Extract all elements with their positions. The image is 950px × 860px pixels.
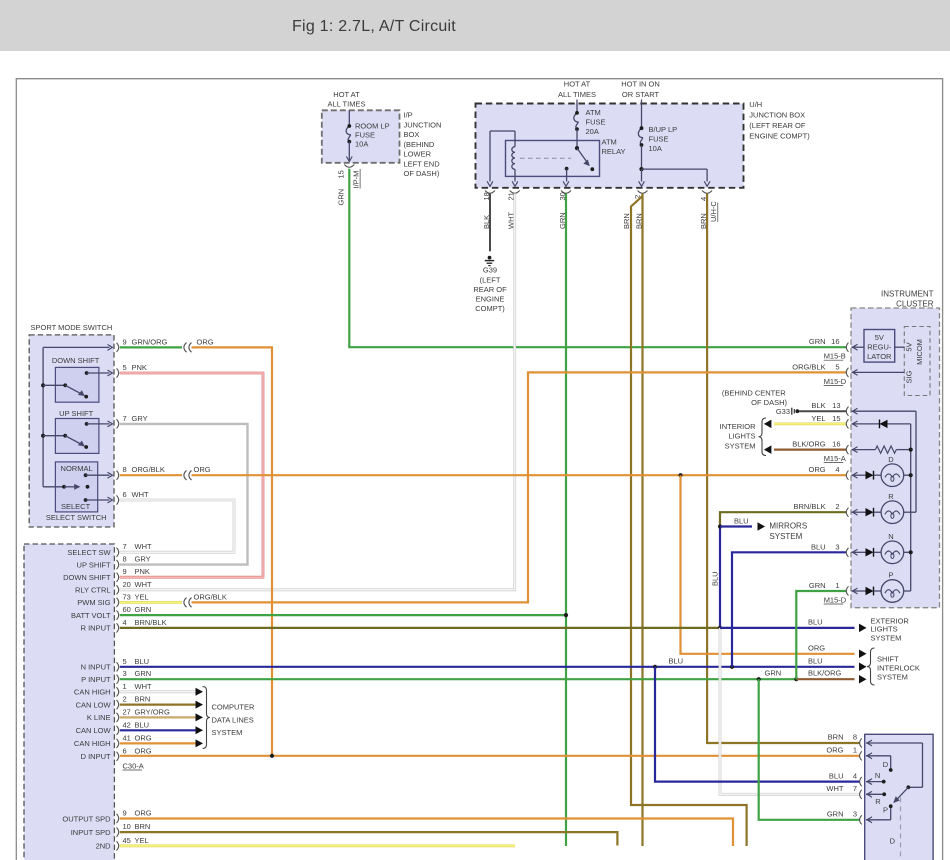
svg-text:P INPUT: P INPUT — [81, 675, 111, 684]
svg-text:SYSTEM: SYSTEM — [877, 672, 908, 681]
svg-text:5: 5 — [123, 657, 127, 666]
svg-text:WHT: WHT — [135, 580, 152, 589]
svg-text:FUSE: FUSE — [355, 130, 375, 139]
U/H pin 2 connector — [638, 191, 648, 194]
range pin 7 WHT — [860, 790, 862, 799]
sport pin 6 — [117, 495, 119, 504]
svg-text:SHIFT: SHIFT — [877, 655, 899, 664]
svg-text:BLK/ORG: BLK/ORG — [808, 669, 842, 678]
fuse B/UP LP FUSE 10A — [641, 100, 643, 129]
I/P junction box — [322, 110, 400, 163]
svg-text:BRN: BRN — [135, 822, 151, 831]
wire ORG/BLK pin8 + splice + ORG to cluster pin 4 — [120, 474, 182, 476]
svg-text:N: N — [888, 532, 893, 541]
svg-text:SPORT MODE SWITCH: SPORT MODE SWITCH — [31, 323, 113, 332]
svg-text:SYSTEM: SYSTEM — [725, 442, 756, 451]
svg-text:3: 3 — [123, 669, 127, 678]
svg-text:OR START: OR START — [622, 90, 660, 99]
svg-text:6: 6 — [123, 490, 127, 499]
svg-text:M15-D: M15-D — [824, 377, 847, 386]
relay output to pin 30 — [565, 167, 569, 171]
svg-text:GRN: GRN — [337, 189, 346, 206]
range pin 3 GRN — [860, 815, 862, 824]
svg-text:5V: 5V — [905, 342, 914, 351]
interior lights YEL 15 — [764, 420, 772, 429]
svg-text:R: R — [875, 797, 881, 806]
svg-text:ENGINE COMPT): ENGINE COMPT) — [749, 132, 810, 141]
U/H pin 21 connector — [510, 191, 520, 194]
svg-text:2: 2 — [835, 502, 839, 511]
wire WHT pin6 to TCM SELECT SW — [120, 500, 234, 552]
U/H pin 4 connector U/H-C — [702, 191, 712, 194]
range pin 1 ORG — [860, 751, 862, 760]
svg-text:GRN/ORG: GRN/ORG — [132, 337, 168, 346]
svg-text:PNK: PNK — [132, 363, 147, 372]
svg-text:D INPUT: D INPUT — [81, 752, 111, 761]
svg-text:D: D — [888, 455, 894, 464]
wire BRN pin2 main — [641, 194, 643, 847]
svg-text:LEFT END: LEFT END — [404, 159, 441, 168]
svg-text:DOWN SHIFT: DOWN SHIFT — [52, 356, 100, 365]
svg-text:INTERLOCK: INTERLOCK — [877, 663, 920, 672]
svg-text:DATA LINES: DATA LINES — [212, 715, 254, 724]
svg-text:M15-D: M15-D — [824, 596, 847, 605]
TCM connector box — [24, 544, 114, 860]
title bar — [0, 0, 950, 51]
relay switch — [575, 146, 579, 150]
svg-text:ORG/BLK: ORG/BLK — [132, 465, 165, 474]
wire BLU to cluster pin 3 — [732, 552, 847, 667]
svg-text:CAN LOW: CAN LOW — [76, 726, 112, 735]
wire BRN U/H-C pin4 to range switch pin 8 — [707, 194, 860, 744]
cluster lamp R pin 2 — [846, 508, 848, 517]
svg-text:BLU: BLU — [711, 571, 720, 586]
svg-text:BLU: BLU — [808, 656, 823, 665]
svg-text:FUSE: FUSE — [586, 118, 606, 127]
svg-text:SYSTEM: SYSTEM — [871, 634, 902, 643]
svg-text:ENGINE: ENGINE — [476, 295, 505, 304]
svg-text:BLU: BLU — [808, 617, 823, 626]
svg-text:9: 9 — [123, 337, 127, 346]
svg-text:(LEFT: (LEFT — [480, 276, 501, 285]
svg-text:YEL: YEL — [135, 592, 149, 601]
svg-text:ORG: ORG — [135, 733, 152, 742]
U/H pin 30 connector — [561, 191, 571, 194]
sport pin 5 — [117, 368, 119, 377]
svg-text:P: P — [883, 805, 888, 814]
svg-text:GRN: GRN — [135, 605, 152, 614]
svg-text:CAN LOW: CAN LOW — [76, 700, 112, 709]
svg-text:D: D — [883, 760, 889, 769]
svg-text:SELECT SW: SELECT SW — [67, 548, 111, 557]
svg-text:Fig 1: 2.7L, A/T Circuit: Fig 1: 2.7L, A/T Circuit — [292, 18, 456, 35]
computer data lines wires — [120, 690, 196, 693]
svg-text:1: 1 — [835, 581, 839, 590]
svg-text:N INPUT: N INPUT — [81, 663, 111, 672]
wire PNK pin5 to TCM DOWN SHIFT — [120, 373, 263, 577]
svg-text:10A: 10A — [649, 144, 662, 153]
svg-text:LIGHTS: LIGHTS — [871, 625, 898, 634]
svg-text:16: 16 — [831, 337, 839, 346]
svg-text:CLUSTER: CLUSTER — [896, 300, 934, 309]
connector I/P-M under I/P box — [344, 165, 354, 168]
svg-text:WHT: WHT — [135, 542, 152, 551]
svg-text:7: 7 — [123, 414, 127, 423]
svg-text:73: 73 — [123, 592, 131, 601]
svg-text:13: 13 — [832, 401, 840, 410]
relay link dashed — [520, 157, 571, 159]
svg-text:9: 9 — [123, 809, 127, 818]
svg-text:2: 2 — [123, 695, 127, 704]
svg-text:U/H-C: U/H-C — [709, 201, 718, 222]
svg-text:LATOR: LATOR — [867, 352, 892, 361]
svg-text:SIG: SIG — [905, 370, 914, 383]
5V regulator — [864, 330, 895, 363]
svg-text:4: 4 — [835, 465, 839, 474]
svg-text:GRN: GRN — [809, 337, 826, 346]
svg-text:ALL TIMES: ALL TIMES — [558, 90, 596, 99]
svg-text:REGU-: REGU- — [867, 343, 892, 352]
svg-text:COMPUTER: COMPUTER — [212, 703, 256, 712]
ground G39 — [488, 256, 492, 260]
svg-text:BOX: BOX — [404, 130, 420, 139]
wire GRN P INPUT — [120, 678, 797, 680]
svg-text:ALL TIMES: ALL TIMES — [328, 100, 366, 109]
svg-text:OUTPUT SPD: OUTPUT SPD — [62, 814, 111, 823]
svg-text:GRY: GRY — [135, 555, 151, 564]
svg-text:I/P-M: I/P-M — [352, 171, 361, 189]
svg-text:MICOM: MICOM — [915, 339, 924, 365]
wire GRN to cluster pin 1 — [796, 591, 846, 679]
range switch blade — [906, 785, 910, 789]
wire ORG D INPUT to range switch pin 1 — [120, 755, 860, 757]
svg-text:ORG: ORG — [826, 746, 843, 755]
svg-text:7: 7 — [853, 784, 857, 793]
fuse ATM FUSE 20A — [576, 100, 578, 113]
svg-text:1: 1 — [853, 746, 857, 755]
svg-text:G33: G33 — [776, 407, 790, 416]
shift interlock arrows — [859, 650, 867, 659]
svg-text:8: 8 — [853, 733, 857, 742]
wire GRN BATT VOLT — [120, 614, 566, 616]
svg-text:1: 1 — [123, 682, 127, 691]
svg-text:10: 10 — [123, 822, 131, 831]
wire BLK 18 to ground — [489, 194, 491, 252]
svg-text:INPUT SPD: INPUT SPD — [71, 828, 111, 837]
svg-text:(BEHIND: (BEHIND — [404, 140, 435, 149]
svg-text:NORMAL: NORMAL — [61, 464, 93, 473]
wire ORG OUTPUT SPD — [120, 819, 733, 847]
svg-text:SYSTEM: SYSTEM — [769, 532, 802, 541]
U/H pin 18 connector — [485, 191, 495, 194]
svg-text:G39: G39 — [483, 266, 497, 275]
svg-text:OF DASH): OF DASH) — [751, 398, 787, 407]
wire GRY pin7 to TCM UP SHIFT — [120, 424, 248, 565]
svg-text:7: 7 — [123, 542, 127, 551]
sport pin 9 — [117, 343, 119, 352]
svg-text:ORG: ORG — [194, 465, 211, 474]
svg-text:PNK: PNK — [135, 567, 150, 576]
svg-text:15: 15 — [337, 170, 346, 178]
svg-text:BRN: BRN — [828, 733, 844, 742]
svg-text:10A: 10A — [355, 140, 368, 149]
svg-text:20: 20 — [123, 580, 131, 589]
svg-text:GRY/ORG: GRY/ORG — [135, 707, 170, 716]
wire BLK/ORG to shift interlock — [796, 678, 854, 680]
svg-text:ORG: ORG — [135, 746, 152, 755]
svg-text:D: D — [890, 837, 896, 846]
svg-text:ORG: ORG — [808, 643, 825, 652]
range pin 8 BRN — [860, 738, 862, 747]
svg-text:5: 5 — [123, 363, 127, 372]
svg-text:R: R — [888, 492, 894, 501]
svg-text:GRN: GRN — [135, 669, 152, 678]
brace computer data lines — [203, 687, 211, 749]
switch NORMAL/SELECT — [55, 462, 97, 512]
svg-text:BLU: BLU — [811, 542, 826, 551]
svg-text:WHT: WHT — [132, 490, 149, 499]
svg-text:ATM: ATM — [586, 108, 601, 117]
svg-text:DOWN SHIFT: DOWN SHIFT — [63, 573, 111, 582]
svg-text:LIGHTS: LIGHTS — [728, 431, 755, 440]
svg-text:ORG: ORG — [809, 465, 826, 474]
cluster lamp P pin 1 — [846, 586, 848, 595]
svg-text:6: 6 — [123, 746, 127, 755]
svg-text:INSTRUMENT: INSTRUMENT — [881, 290, 934, 299]
wire GRN/ORG pin9 + splice + ORG to D INPUT node — [120, 346, 182, 348]
svg-text:M15-A: M15-A — [824, 454, 846, 463]
svg-text:41: 41 — [123, 733, 131, 742]
svg-text:27: 27 — [123, 707, 131, 716]
interior lights BLK/ORG 16 — [764, 445, 772, 454]
cluster lamp N pin 3 — [846, 548, 848, 557]
svg-text:5V: 5V — [875, 333, 884, 342]
svg-text:MIRRORS: MIRRORS — [769, 522, 807, 531]
wire GRN 30 relay output down — [565, 194, 567, 847]
svg-text:BRN: BRN — [622, 213, 631, 229]
wire BLU to range pin 4 — [655, 667, 860, 782]
svg-text:WHT: WHT — [826, 784, 843, 793]
svg-text:BLU: BLU — [135, 657, 150, 666]
wire BLU N INPUT to shift interlock — [120, 666, 855, 668]
svg-text:REAR OF: REAR OF — [473, 285, 507, 294]
svg-text:U/H: U/H — [749, 100, 762, 109]
svg-text:FUSE: FUSE — [649, 135, 669, 144]
svg-text:(LEFT REAR OF: (LEFT REAR OF — [749, 121, 806, 130]
wire BLK 13 — [799, 410, 847, 412]
wire BRN/BLK R INPUT — [120, 627, 720, 629]
svg-text:P: P — [888, 571, 893, 580]
svg-text:R INPUT: R INPUT — [81, 624, 111, 633]
svg-text:HOT AT: HOT AT — [564, 80, 591, 89]
relay coil — [514, 131, 516, 147]
fuse ROOM LP FUSE 10A — [348, 110, 350, 126]
sport switch pin 9 internal — [43, 346, 109, 348]
svg-text:16: 16 — [832, 440, 840, 449]
svg-text:8: 8 — [123, 555, 127, 564]
svg-text:LOWER: LOWER — [404, 150, 432, 159]
svg-text:YEL: YEL — [811, 414, 825, 423]
svg-text:BLU: BLU — [829, 771, 844, 780]
wire BRN INPUT SPD — [120, 832, 618, 845]
svg-text:ORG/BLK: ORG/BLK — [194, 592, 227, 601]
svg-text:BLU: BLU — [734, 517, 749, 526]
svg-text:HOT AT: HOT AT — [333, 90, 360, 99]
svg-text:BLU: BLU — [669, 656, 684, 665]
svg-text:SELECT SWITCH: SELECT SWITCH — [46, 513, 107, 522]
svg-text:CAN HIGH: CAN HIGH — [74, 739, 111, 748]
svg-text:JUNCTION BOX: JUNCTION BOX — [749, 111, 805, 120]
svg-text:I/P: I/P — [404, 111, 413, 120]
svg-text:3: 3 — [853, 810, 857, 819]
svg-text:(BEHIND CENTER: (BEHIND CENTER — [722, 388, 786, 397]
svg-text:4: 4 — [123, 618, 127, 627]
svg-text:9: 9 — [123, 567, 127, 576]
svg-text:ORG: ORG — [197, 337, 214, 346]
svg-text:20A: 20A — [586, 127, 599, 136]
cluster pin 16 GRN — [846, 343, 848, 352]
svg-text:N: N — [875, 771, 880, 780]
sport switch common bus — [42, 347, 44, 486]
wire YEL 2ND — [120, 845, 515, 848]
svg-text:BLK: BLK — [811, 401, 825, 410]
svg-text:BLU: BLU — [135, 720, 150, 729]
svg-text:COMPT): COMPT) — [475, 304, 505, 313]
wire BRN/BLK cluster pin2 net with BLU/WHT segments — [720, 512, 847, 526]
U/H junction box — [476, 104, 744, 188]
svg-text:3: 3 — [835, 542, 839, 551]
relay ATM RELAY — [506, 141, 600, 177]
wire GRN to range pin 3 — [759, 679, 860, 820]
svg-text:UP SHIFT: UP SHIFT — [59, 409, 93, 418]
svg-text:ATM: ATM — [602, 138, 617, 147]
svg-text:4: 4 — [853, 771, 857, 780]
sport pin 7 — [117, 419, 119, 428]
svg-text:SELECT: SELECT — [61, 502, 91, 511]
svg-text:SYSTEM: SYSTEM — [212, 728, 243, 737]
svg-text:BLK/ORG: BLK/ORG — [792, 440, 826, 449]
node B/UP fuse output — [639, 167, 643, 171]
wire WHT 21 to TCM RLY CTRL — [120, 194, 515, 590]
svg-text:JUNCTION: JUNCTION — [404, 120, 442, 129]
svg-text:ROOM LP: ROOM LP — [355, 122, 390, 131]
svg-text:ORG: ORG — [135, 809, 152, 818]
svg-text:B/UP LP: B/UP LP — [649, 125, 678, 134]
svg-text:BRN/BLK: BRN/BLK — [135, 618, 167, 627]
svg-text:GRN: GRN — [765, 669, 782, 678]
svg-text:HOT IN ON: HOT IN ON — [621, 80, 660, 89]
svg-text:CAN HIGH: CAN HIGH — [74, 688, 111, 697]
svg-text:2ND: 2ND — [96, 842, 112, 851]
wire YEL PWM SIG + splice + ORG/BLK to cluster pin 5 — [120, 601, 182, 604]
svg-text:BRN: BRN — [135, 695, 151, 704]
range pin 4 BLU — [860, 777, 862, 786]
svg-text:K LINE: K LINE — [87, 713, 111, 722]
wire GRN from I/P fuse to instrument cluster pin 16 — [349, 169, 846, 347]
svg-text:15: 15 — [832, 414, 840, 423]
svg-text:UP SHIFT: UP SHIFT — [77, 560, 111, 569]
svg-text:8: 8 — [123, 465, 127, 474]
svg-text:ORG/BLK: ORG/BLK — [792, 362, 825, 371]
svg-text:YEL: YEL — [135, 836, 149, 845]
svg-text:OF DASH): OF DASH) — [404, 169, 440, 178]
svg-text:M15-B: M15-B — [824, 352, 846, 361]
sport pin 8 — [117, 471, 119, 480]
svg-text:GRN: GRN — [809, 581, 826, 590]
svg-text:42: 42 — [123, 720, 131, 729]
svg-text:PWM SIG: PWM SIG — [77, 598, 110, 607]
MICOM box — [904, 327, 930, 396]
svg-text:BRN/BLK: BRN/BLK — [793, 502, 825, 511]
svg-text:GRN: GRN — [827, 810, 844, 819]
cluster pin 5 ORG/BLK — [846, 368, 848, 377]
svg-text:GRY: GRY — [132, 414, 148, 423]
wire BLU exterior lights — [720, 627, 855, 629]
range switch box — [865, 734, 933, 860]
svg-text:INTERIOR: INTERIOR — [720, 422, 756, 431]
svg-text:45: 45 — [123, 836, 131, 845]
svg-text:BATT VOLT: BATT VOLT — [71, 611, 111, 620]
svg-text:RLY CTRL: RLY CTRL — [75, 586, 111, 595]
svg-text:RELAY: RELAY — [602, 147, 626, 156]
cluster lamp D pin 4 — [846, 471, 848, 480]
node ORG split to shift interlock — [678, 473, 682, 477]
svg-text:C30-A: C30-A — [123, 762, 144, 771]
wire BRN pin2 branch diagonal — [631, 196, 747, 846]
svg-text:60: 60 — [123, 605, 131, 614]
svg-text:WHT: WHT — [135, 682, 152, 691]
wire BLU mirrors branch — [720, 525, 752, 527]
svg-text:5: 5 — [835, 362, 839, 371]
